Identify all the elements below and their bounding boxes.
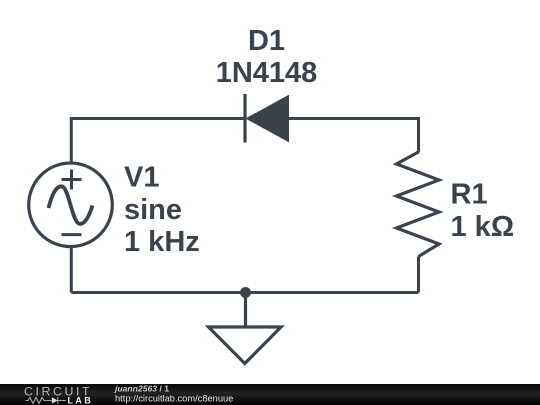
wire top-right segment (D1 anode to R1 top) [288,119,419,153]
svg-text:D1: D1 [248,25,285,57]
resistor R1 [397,152,440,257]
ground [209,293,282,364]
svg-text:V1: V1 [124,161,159,193]
footer bar [0,384,540,405]
svg-text:http://circuitlab.com/c8enuue: http://circuitlab.com/c8enuue [115,394,233,404]
svg-text:1 kΩ: 1 kΩ [451,211,515,243]
svg-text:LAB: LAB [68,396,94,405]
svg-text:sine: sine [124,194,182,226]
node junction [240,287,251,298]
voltage source V1 [29,163,113,247]
svg-text:juann2563 / 1: juann2563 / 1 [114,383,169,393]
svg-text:1 kHz: 1 kHz [124,226,200,258]
diode D1 [245,94,289,143]
svg-text:R1: R1 [451,179,488,211]
wire bottom rail [71,291,418,294]
wire right-lower segment (R1 bottom to bottom rail) [417,257,420,293]
CircuitLab logo: resistor-diode glyph [26,397,67,403]
wire top-left segment (V1 top to D1 cathode) [71,119,245,164]
wire left-lower segment (V1 bottom to bottom rail) [70,247,73,293]
svg-text:1N4148: 1N4148 [216,57,318,89]
